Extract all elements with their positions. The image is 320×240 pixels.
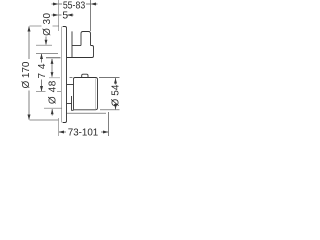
dim 55-83 left arrow <box>52 3 58 5</box>
dim 74 bottom arrow <box>41 80 43 92</box>
dim D170 line top <box>28 27 30 60</box>
dim 5 right arrow <box>68 14 74 16</box>
svg-text:Ø 170: Ø 170 <box>21 61 32 88</box>
escutcheon plate <box>62 27 64 123</box>
thermostat handle body <box>74 78 98 110</box>
svg-text:Ø 54: Ø 54 <box>111 84 122 106</box>
dim D54 bottom extension <box>100 109 120 111</box>
shut-off valve lever blade <box>71 31 73 57</box>
dim D48 extension <box>49 77 60 79</box>
dim 73-101 right extension <box>108 112 110 136</box>
dim 55-83 extension right <box>90 0 92 31</box>
dim 55-83 right arrow <box>92 3 98 5</box>
shut-off valve lever knob <box>81 32 91 46</box>
svg-text:5: 5 <box>62 11 68 22</box>
svg-text:Ø 30: Ø 30 <box>42 12 53 35</box>
dim 74 extension top <box>36 53 58 55</box>
wall reference line top <box>58 0 60 31</box>
shut-off valve base top edge <box>72 45 81 47</box>
dim 74 top arrow <box>41 54 43 63</box>
dim D30 arrow down <box>45 37 47 45</box>
dim 5 left arrow <box>52 14 58 16</box>
knob bottom extension left <box>44 107 62 109</box>
dim D48 top arrow <box>51 59 53 72</box>
dim D48 bottom arrow <box>51 72 54 78</box>
dim D170 extension bottom <box>30 119 59 121</box>
dim D30 extension <box>36 44 52 46</box>
thermostat safety button <box>82 74 88 77</box>
thermostat neck top <box>67 84 74 86</box>
dim D54 top extension <box>99 77 120 79</box>
wall reference line bottom <box>58 118 60 136</box>
thermostat sleeve rear <box>72 96 74 110</box>
shut-off valve body <box>67 46 94 58</box>
svg-text:Ø 48: Ø 48 <box>47 80 58 104</box>
knob bottom up arrow <box>51 109 53 116</box>
projection line to max depth <box>67 112 106 114</box>
dim 73-101 right arrow <box>101 131 108 133</box>
dim D170 line bottom <box>28 91 30 120</box>
thermostat front chamfer line <box>95 79 97 110</box>
thermostat neck bottom <box>67 103 72 105</box>
svg-text:73-101: 73-101 <box>68 127 99 138</box>
dim D54 bottom arrow <box>115 104 117 110</box>
valve body bottom extension <box>46 57 61 59</box>
dim 74 extension bottom <box>36 91 46 93</box>
dim 55-83 stubs <box>59 3 63 5</box>
dim D54 top arrow <box>115 78 117 85</box>
dim D170 extension top <box>30 25 42 27</box>
dim 73-101 left arrow <box>59 131 66 133</box>
